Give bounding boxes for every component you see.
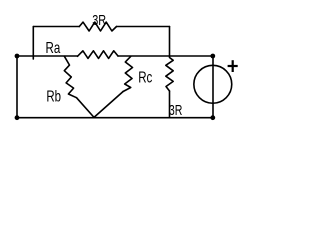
svg-text:Rb: Rb — [46, 88, 61, 105]
junction dot top-right — [210, 54, 215, 59]
wire: Rb bottom lead — [77, 98, 95, 118]
wire: left rail — [16, 56, 18, 118]
wire: junction stub below node at x=33 — [32, 56, 34, 59]
resistor Rb (diagonal zigzag) — [64, 56, 76, 97]
svg-text:3R: 3R — [169, 103, 183, 119]
wire: Rc bottom lead — [94, 92, 123, 118]
svg-text:3R: 3R — [92, 11, 106, 28]
junction dot top-left — [15, 54, 20, 59]
current source circle — [194, 65, 232, 103]
junction dot bottom-right — [210, 115, 215, 120]
junction dot bottom-left — [15, 115, 20, 120]
wire: 3R right bottom lead — [169, 91, 171, 118]
plus sign of source — [228, 60, 238, 72]
svg-text:Rc: Rc — [138, 69, 152, 86]
wire: source top lead — [212, 56, 214, 118]
resistor Ra (zigzag on main wire) — [78, 51, 119, 59]
wire: top loop right vertical — [169, 27, 171, 57]
wire: main horizontal left segment — [17, 55, 78, 57]
wire: bottom rail — [17, 117, 213, 119]
wire: top loop left vertical — [32, 27, 34, 57]
resistor 3R right (vertical zigzag) — [166, 56, 173, 91]
svg-text:Ra: Ra — [46, 39, 61, 56]
wire: top loop left lead — [33, 26, 79, 28]
wire: main horizontal right segment — [118, 55, 213, 57]
resistor 3R top (zigzag) — [79, 22, 116, 31]
resistor Rc (vertical zigzag) — [123, 56, 132, 91]
wire: top loop right lead — [117, 26, 170, 28]
